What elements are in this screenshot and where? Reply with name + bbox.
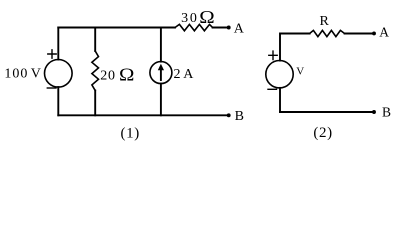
svg-text:(2): (2) [313, 125, 332, 141]
svg-text:20: 20 [100, 69, 116, 84]
svg-text:R: R [320, 14, 330, 29]
wire: circuit 2 vertical from source down to bottom wire [279, 88, 281, 112]
current source arrow shaft [160, 69, 162, 81]
resistor 30 ohm (zigzag) [175, 24, 213, 30]
plus sign of 100 V source [48, 50, 56, 58]
node A terminal dot (circuit 1) [227, 26, 231, 30]
wire: circuit 1 top wire from source to resistor [58, 27, 175, 29]
svg-text:B: B [235, 109, 244, 124]
wire: 20 ohm branch top [94, 28, 96, 52]
wire: circuit 2 bottom wire [280, 111, 372, 113]
wire: circuit 1 left vertical top (corner to source +) [57, 28, 59, 60]
svg-text:A: A [379, 24, 389, 39]
svg-text:A: A [234, 22, 245, 37]
wire: resistor to terminal A [213, 27, 227, 29]
minus sign of 100 V source [47, 87, 56, 89]
wire: circuit 1 left vertical bottom (source - to bottom wire) [57, 87, 59, 115]
svg-text:100: 100 [4, 67, 28, 82]
voltage source V1 circle 100 V [45, 60, 73, 88]
current source I1 circle 2 A [150, 62, 172, 84]
minus sign of V source [268, 88, 277, 90]
voltage source V2 circle V [266, 60, 293, 87]
svg-text:B: B [382, 105, 391, 120]
svg-text:V: V [31, 67, 41, 82]
node B terminal dot (circuit 2) [372, 110, 376, 114]
svg-text:(1): (1) [121, 125, 140, 141]
wire: circuit 2 vertical from source up and top wire to resistor [280, 34, 310, 61]
resistor 20 ohm (vertical zigzag) [92, 51, 99, 91]
svg-text:Ω: Ω [119, 66, 134, 85]
wire: circuit 1 bottom wire [58, 114, 227, 116]
node B terminal dot (circuit 1) [227, 113, 231, 117]
plus sign of V source [269, 51, 277, 59]
node A terminal dot (circuit 2) [372, 31, 376, 35]
svg-text:30: 30 [181, 11, 199, 26]
svg-text:Ω: Ω [199, 9, 214, 28]
svg-text:2 A: 2 A [174, 67, 195, 82]
wire: resistor R to terminal A [345, 33, 372, 35]
svg-text:V: V [296, 66, 304, 78]
current source arrowhead [158, 64, 164, 70]
resistor R (zigzag) [310, 30, 345, 36]
wire: 20 ohm branch bottom [94, 91, 96, 116]
wire: current source branch bottom [160, 84, 162, 116]
wire: current source branch top [160, 28, 162, 62]
